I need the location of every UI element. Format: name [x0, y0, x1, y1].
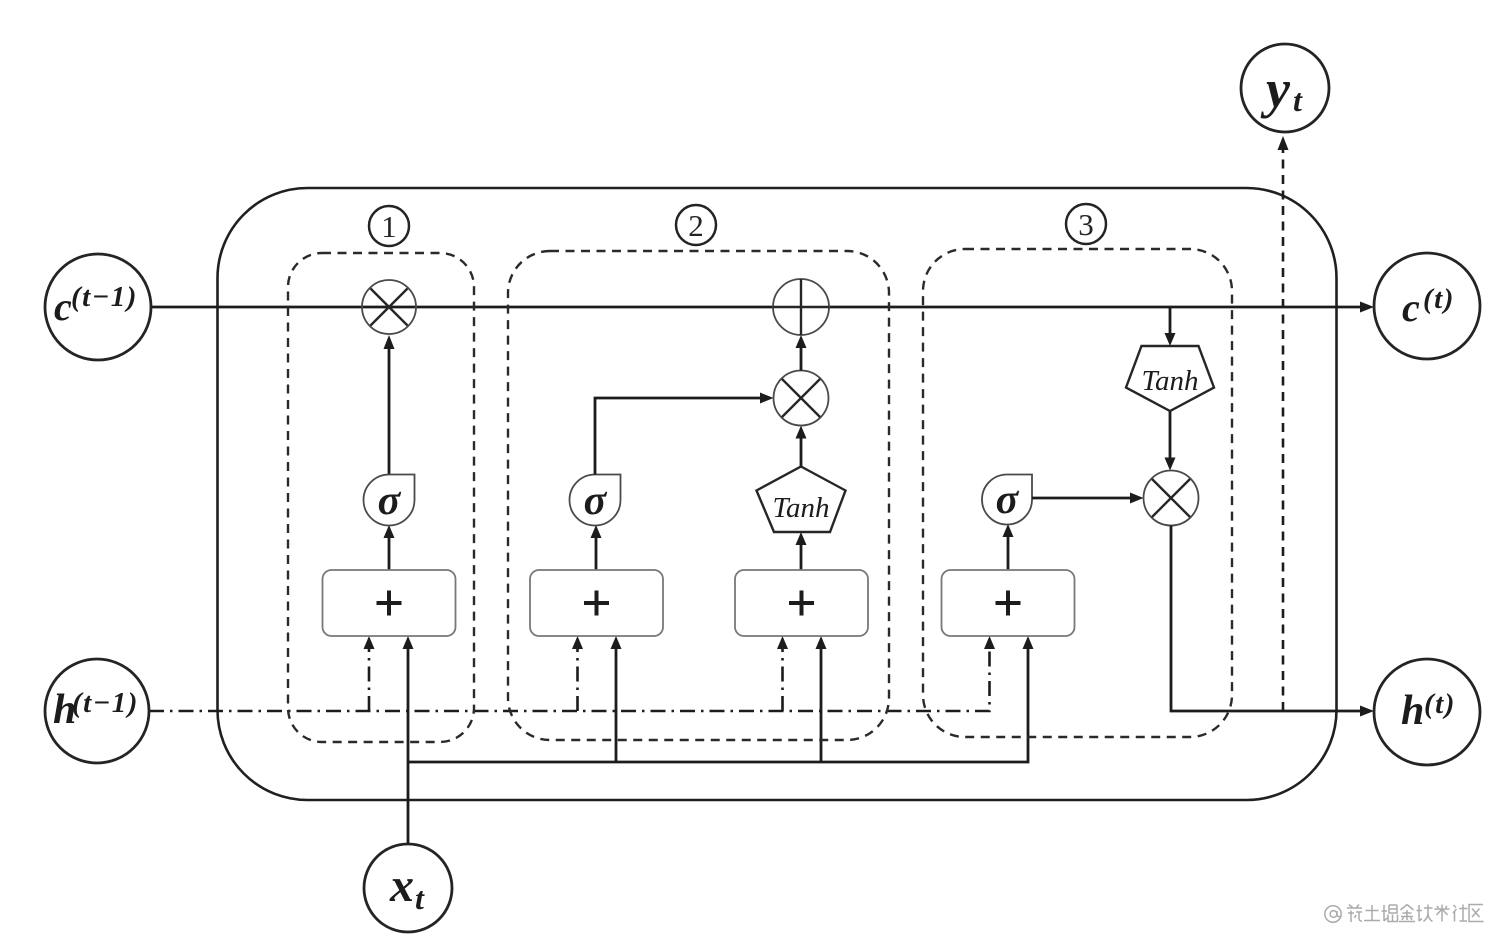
dashed gate box 3 — [923, 249, 1232, 737]
svg-text:1: 1 — [381, 209, 397, 244]
arrowhead x_t into plus box 1 — [403, 636, 414, 649]
arrow plus box2b to tanh2 — [796, 532, 807, 570]
arrow multiply2 to add node — [796, 335, 807, 371]
arrowhead x into plus box 2b — [816, 636, 827, 649]
svg-text:(t): (t) — [1424, 688, 1456, 720]
arrowhead dashdot into plus box 1 — [364, 636, 375, 649]
dashed gate box 1 — [288, 253, 474, 742]
svg-text:h: h — [1401, 688, 1424, 734]
wire x branch to plus box 2a — [615, 642, 618, 762]
svg-text:c: c — [54, 284, 72, 329]
svg-text:x: x — [389, 859, 414, 912]
sigma gate box3 — [982, 475, 1032, 525]
multiply node box1 — [362, 280, 416, 474]
outer LSTM cell rounded box — [218, 188, 1337, 800]
svg-text:2: 2 — [688, 208, 704, 243]
wire dash-dot branch to plus box 2b — [781, 642, 784, 711]
plus box 2a — [530, 570, 663, 636]
arrow tanh3 to multiply3 — [1165, 411, 1176, 471]
plus box 3 — [942, 570, 1075, 636]
arrowhead dashed into y_t — [1278, 136, 1289, 150]
svg-text:3: 3 — [1078, 207, 1094, 242]
wire dash-dot branch to plus box 2a — [576, 642, 579, 711]
wire x distribution line — [408, 642, 1028, 762]
node x_t — [364, 844, 452, 932]
wire sigma2 to multiply2 — [595, 393, 774, 475]
svg-text:t: t — [1293, 82, 1303, 118]
dashed gate box 2 — [508, 251, 889, 740]
arrowhead x into plus box 2a — [611, 636, 622, 649]
svg-text:(t): (t) — [1423, 283, 1455, 315]
circled label 1 — [369, 206, 409, 246]
arrowhead into c(t) — [1360, 302, 1374, 313]
sigma gate box2 — [570, 475, 621, 526]
add node on c line — [773, 279, 829, 335]
arrow plus box1 to sigma — [384, 525, 395, 570]
node c(t-1) — [45, 254, 151, 360]
arrowhead dashdot into plus box 3 — [984, 636, 995, 649]
arrowhead x into plus box 3 — [1023, 636, 1034, 649]
wire x branch to plus box 2b — [820, 642, 823, 762]
wire dash-dot branch to plus box 1 — [368, 642, 371, 711]
circled label 3 — [1066, 204, 1106, 244]
wire x_t vertical — [407, 642, 410, 844]
arrow c line to tanh3 — [1165, 307, 1176, 346]
svg-text:Tanh: Tanh — [1142, 365, 1199, 397]
svg-text:σ: σ — [584, 478, 608, 524]
tanh gate box2 — [757, 467, 846, 533]
wire main c line — [151, 306, 1362, 309]
svg-text:t: t — [415, 880, 425, 916]
arrow tanh2 to multiply2 — [796, 426, 807, 467]
tanh gate box3 inverted — [1126, 346, 1214, 411]
wire dashed output to y_t — [1282, 143, 1285, 711]
node h(t-1) — [45, 659, 149, 763]
arrow plus box2a to sigma2 — [591, 525, 602, 570]
wire h(t-1) dash-dot line — [149, 642, 990, 711]
plus box 2b — [735, 570, 868, 636]
svg-text:σ: σ — [996, 477, 1020, 523]
svg-text:c: c — [1402, 285, 1420, 330]
arrow sigma3 to multiply3 — [1032, 493, 1144, 504]
node y_t — [1241, 44, 1329, 132]
watermark — [1325, 905, 1484, 923]
svg-text:(t−1): (t−1) — [71, 281, 138, 313]
svg-text:(t−1): (t−1) — [72, 687, 139, 719]
arrowhead dashdot into plus box 2a — [572, 636, 583, 649]
arrow plus box3 to sigma3 — [1003, 524, 1014, 570]
multiply node box3 — [1144, 471, 1199, 526]
svg-text:Tanh: Tanh — [773, 492, 830, 524]
circled label 2 — [676, 205, 716, 245]
sigma gate box1 — [364, 475, 415, 526]
svg-text:σ: σ — [378, 478, 402, 524]
multiply node box2 — [774, 371, 829, 426]
node c(t) — [1374, 253, 1480, 359]
plus box 1 — [323, 570, 456, 636]
node h(t) — [1374, 659, 1480, 765]
wire multiply3 to h(t) — [1171, 526, 1374, 717]
arrowhead dashdot into plus box 2b — [777, 636, 788, 649]
